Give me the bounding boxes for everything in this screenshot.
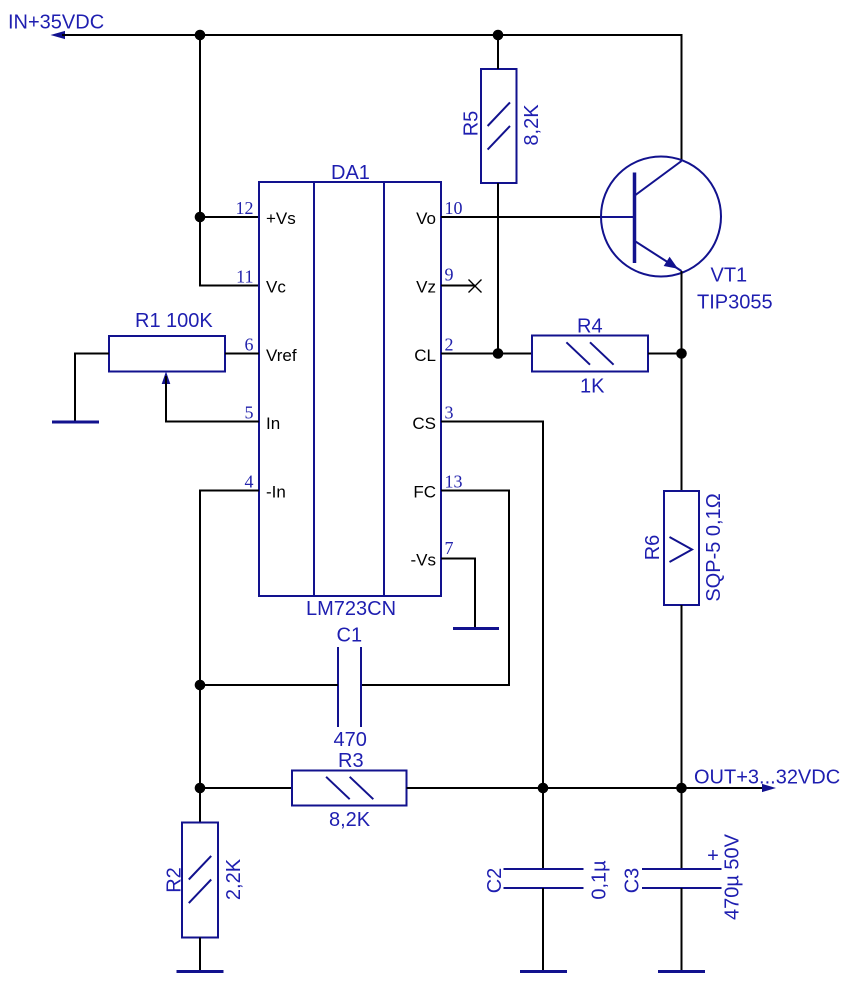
- pin name FC: [413, 483, 436, 502]
- wire R5 bottom to CL row: [497, 183, 499, 354]
- junction top-left: [195, 30, 206, 41]
- wire pin 9 Vz stub: [441, 285, 475, 287]
- junction C1 left column: [195, 680, 206, 691]
- svg-text:2: 2: [445, 335, 454, 355]
- label VT1: [711, 265, 748, 287]
- capacitor C1: [338, 647, 361, 727]
- svg-text:8,2K: 8,2K: [329, 809, 371, 831]
- ground (C3): [658, 970, 705, 973]
- pin name -In: [266, 483, 286, 502]
- svg-text:100K: 100K: [166, 310, 213, 332]
- svg-text:9: 9: [445, 265, 454, 285]
- svg-text:6: 6: [245, 335, 254, 355]
- input arrow: [51, 31, 66, 39]
- svg-text:R6: R6: [642, 535, 664, 561]
- pin name Vo: [416, 209, 436, 228]
- svg-text:7: 7: [445, 538, 454, 558]
- pin name Vref: [266, 346, 297, 365]
- svg-text:3: 3: [445, 403, 454, 423]
- label R5: [461, 111, 483, 137]
- wiper arrow R1: [162, 372, 171, 385]
- net label IN+35VDC: [8, 12, 104, 34]
- wire pin 10 Vo to base: [441, 216, 601, 218]
- wire OUT row right: [407, 787, 764, 789]
- svg-text:In: In: [266, 414, 280, 433]
- label C2: [484, 868, 506, 894]
- wire pin 7 -Vs to ground: [441, 559, 475, 628]
- svg-text:10: 10: [445, 198, 463, 218]
- value 470: [334, 729, 367, 751]
- pin name Vc: [266, 278, 286, 297]
- wire pin 3 CS down to OUT row: [441, 422, 543, 789]
- pin 7 number: [445, 538, 454, 558]
- svg-text:LM723CN: LM723CN: [306, 598, 396, 620]
- svg-text:TIP3055: TIP3055: [697, 292, 773, 314]
- pin 9 number: [445, 265, 454, 285]
- wire pin 2 CL to R4: [441, 353, 532, 355]
- label C3: [622, 868, 644, 894]
- label TIP3055: [697, 292, 773, 314]
- svg-text:Vo: Vo: [416, 209, 436, 228]
- svg-text:0,1µ: 0,1µ: [589, 860, 611, 900]
- polarity plus (C3): [707, 845, 719, 867]
- potentiometer R1: [109, 336, 225, 372]
- value 2,2K: [223, 858, 245, 900]
- transistor Q VT1: [601, 157, 721, 277]
- pin name Vz: [416, 278, 436, 297]
- junction C3 column: [676, 783, 687, 794]
- svg-text:-In: -In: [266, 483, 286, 502]
- svg-text:VT1: VT1: [711, 265, 748, 287]
- ground (C2): [520, 970, 567, 973]
- svg-text:C1: C1: [337, 625, 363, 647]
- svg-text:2,2K: 2,2K: [223, 858, 245, 900]
- pin 13 number: [445, 472, 463, 492]
- pin 10 number: [445, 198, 463, 218]
- net label OUT+3...32VDC: [694, 767, 840, 789]
- wire OUT row left: [200, 787, 292, 789]
- wire wiper to pin 5: [166, 376, 259, 422]
- pin 3 number: [445, 403, 454, 423]
- resistor R5: [481, 69, 517, 183]
- wire emitter down through CL junction to R6: [681, 271, 683, 491]
- wire R1 left to ground: [75, 354, 109, 421]
- svg-text:Vz: Vz: [416, 278, 436, 297]
- label DA1: [331, 162, 370, 184]
- ground (-Vs): [453, 627, 499, 630]
- value SQP-5 0,1ohm: [703, 493, 725, 601]
- resistor R3: [292, 771, 407, 806]
- svg-text:4: 4: [245, 472, 254, 492]
- wire left column to Vc: [200, 35, 259, 286]
- svg-text:C2: C2: [484, 868, 506, 894]
- wire top rail and collector drop: [62, 35, 682, 161]
- svg-text:IN+35VDC: IN+35VDC: [8, 12, 104, 34]
- pin name CL: [414, 346, 436, 365]
- wire pin 12: [200, 216, 259, 218]
- svg-text:C3: C3: [622, 868, 644, 894]
- wire R5 top: [497, 35, 499, 69]
- ground (R1): [52, 421, 99, 424]
- ground (R2): [177, 970, 224, 973]
- svg-text:5: 5: [245, 403, 254, 423]
- svg-text:OUT+3...32VDC: OUT+3...32VDC: [694, 767, 840, 789]
- resistor R2: [182, 823, 218, 938]
- op-amp regulator IC DA1 body: [259, 182, 441, 596]
- svg-text:CL: CL: [414, 346, 436, 365]
- capacitor C2: [504, 869, 584, 888]
- svg-text:SQP-5 0,1Ω: SQP-5 0,1Ω: [703, 493, 725, 601]
- svg-text:1K: 1K: [580, 376, 605, 398]
- value 8,2K (R5): [521, 104, 543, 146]
- svg-text:13: 13: [445, 472, 463, 492]
- svg-text:Vref: Vref: [266, 346, 297, 365]
- wire C1 left: [200, 684, 338, 686]
- svg-text:470µ 50V: 470µ 50V: [722, 833, 744, 920]
- svg-text:12: 12: [236, 198, 254, 218]
- svg-text:R2: R2: [164, 867, 186, 893]
- label C1: [337, 625, 363, 647]
- svg-text:CS: CS: [412, 414, 436, 433]
- wire pin 4 -In and left column down: [200, 491, 259, 823]
- svg-text:FC: FC: [413, 483, 436, 502]
- wire pin 13 FC down to C1: [361, 491, 509, 686]
- label R4: [577, 316, 603, 338]
- svg-text:R3: R3: [338, 750, 364, 772]
- label LM723CN: [306, 598, 396, 620]
- svg-text:11: 11: [236, 267, 253, 287]
- pin name In: [266, 414, 280, 433]
- junction OUT row left: [195, 783, 206, 794]
- junction pin 12: [195, 212, 206, 223]
- wire C2 bottom: [542, 888, 544, 970]
- wire pin 6: [225, 353, 259, 355]
- junction CL / R5: [493, 348, 504, 359]
- wire C3 top: [681, 788, 683, 869]
- pin 11 number: [236, 267, 253, 287]
- svg-text:Vc: Vc: [266, 278, 286, 297]
- svg-text:R5: R5: [461, 111, 483, 137]
- no-connect cross (pin 9): [469, 280, 482, 293]
- pin 4 number: [245, 472, 254, 492]
- pin name -Vs: [411, 551, 437, 570]
- svg-text:+: +: [707, 845, 719, 867]
- pin 5 number: [245, 403, 254, 423]
- wire C2 top: [542, 788, 544, 869]
- value 1K: [580, 376, 605, 398]
- value 8,2K (R3): [329, 809, 371, 831]
- svg-text:+Vs: +Vs: [266, 209, 296, 228]
- pin name CS: [412, 414, 436, 433]
- label R1 100K: [135, 310, 213, 332]
- svg-text:R1: R1: [135, 310, 161, 332]
- junction C2 column: [538, 783, 549, 794]
- svg-text:R4: R4: [577, 316, 603, 338]
- svg-text:DA1: DA1: [331, 162, 370, 184]
- svg-text:-Vs: -Vs: [411, 551, 437, 570]
- value 470u 50V: [722, 833, 744, 920]
- output arrow: [762, 784, 776, 792]
- label R3: [338, 750, 364, 772]
- label R2: [164, 867, 186, 893]
- pin 12 number: [236, 198, 254, 218]
- wire R2 bottom: [199, 938, 201, 971]
- resistor R6: [664, 491, 699, 605]
- value 0,1u: [589, 860, 611, 900]
- wire R4 right to emitter column: [648, 353, 682, 355]
- label R6: [642, 535, 664, 561]
- junction top R5: [493, 30, 504, 41]
- wire R6 bottom to OUT row: [681, 605, 683, 788]
- junction emitter column: [676, 348, 687, 359]
- capacitor C3: [642, 869, 722, 888]
- pin name +Vs: [266, 209, 296, 228]
- pin 2 number: [445, 335, 454, 355]
- svg-text:470: 470: [334, 729, 367, 751]
- wire C3 bottom: [681, 888, 683, 970]
- svg-text:8,2K: 8,2K: [521, 104, 543, 146]
- resistor R4: [532, 336, 648, 372]
- pin 6 number: [245, 335, 254, 355]
